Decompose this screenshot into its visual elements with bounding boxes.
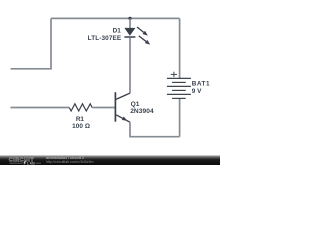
battery BAT1 [167,78,191,98]
resistor R1 [69,104,92,111]
svg-text:LTL-307EE: LTL-307EE [88,35,122,42]
svg-text:9 V: 9 V [192,88,202,95]
transistor Q1 [115,92,130,122]
wire resistor to base [92,107,114,109]
CircuitLab watermark bar [0,155,220,165]
wire LED cathode down to collector [129,37,131,93]
wire left stub up to top rail [11,18,52,68]
wire battery positive drop [179,18,181,78]
svg-text:LAB: LAB [27,161,35,165]
svg-text:Q1: Q1 [131,101,140,108]
svg-text:R1: R1 [76,116,85,123]
wire battery negative to bottom rail [179,98,181,136]
svg-text:D1: D1 [113,28,122,35]
battery plus sign [171,72,177,77]
svg-text:100 Ω: 100 Ω [72,123,90,130]
LED D1 [124,27,150,45]
wire LED anode drop [129,18,131,28]
wire input net to resistor [11,107,70,109]
node junction at LED anode [128,17,131,20]
wire emitter to bottom rail [130,122,180,137]
wire top rail [51,17,180,19]
svg-text:2N3904: 2N3904 [130,108,154,115]
svg-text:BAT1: BAT1 [192,80,210,87]
svg-text:http;//circuitlab.com/c/545z9m: http;//circuitlab.com/c/545z9m [46,160,94,164]
